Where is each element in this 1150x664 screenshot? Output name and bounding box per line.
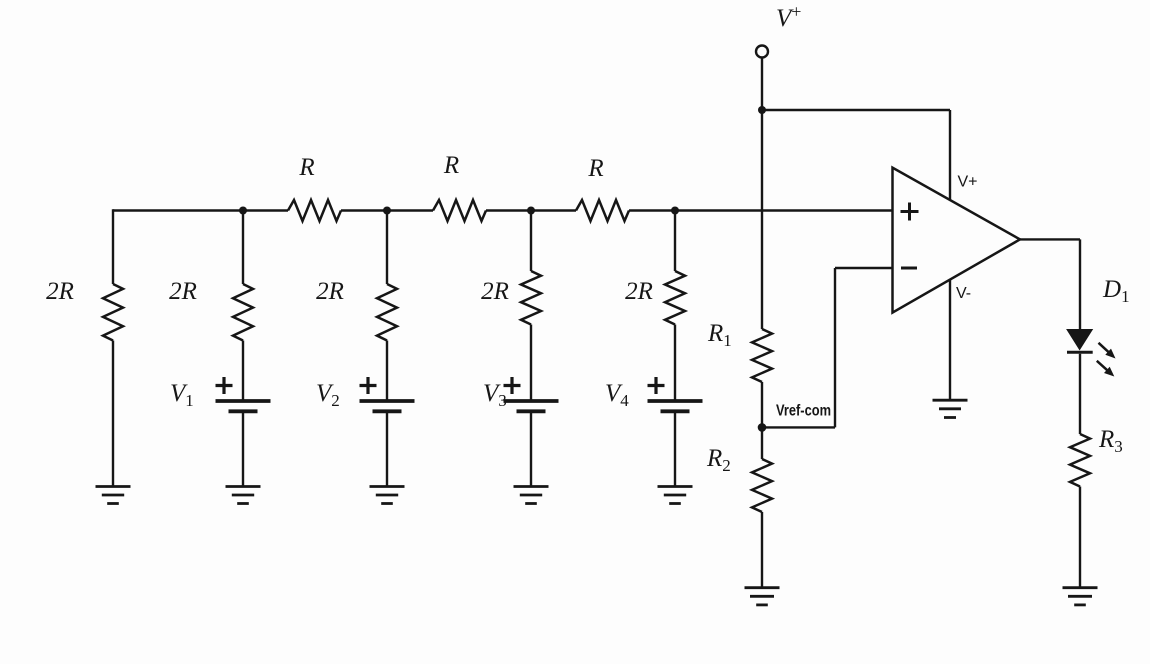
svg-text:2R: 2R (625, 278, 653, 305)
resistor 2R terminating (103, 284, 123, 341)
svg-text:V+: V+ (776, 2, 801, 33)
battery V2 (360, 399, 415, 403)
ground op-amp V- (933, 399, 968, 402)
ground column V1 (226, 485, 261, 488)
wire 2R to battery V3 (530, 325, 532, 402)
terminal V+ open circle (756, 46, 768, 58)
battery V4 (648, 399, 703, 403)
LED D1 light arrow 1 (1099, 343, 1110, 353)
resistor R (between node C and node D) (576, 200, 629, 221)
node C junction (527, 207, 535, 215)
wire left column top (112, 209, 114, 284)
svg-text:R1: R1 (707, 320, 732, 350)
node B junction (383, 207, 391, 215)
wire battery V3 to ground (530, 411, 532, 486)
LED D1 light arrow 2 (1097, 361, 1109, 371)
ground column V2 (370, 485, 405, 488)
node D junction (671, 207, 679, 215)
resistor R1 (752, 329, 772, 382)
ground left column (96, 485, 131, 488)
resistor R (between node B and node C) (433, 200, 486, 221)
wire node to 2R resistor column V2 (386, 211, 388, 285)
wire 2R to battery V4 (674, 325, 676, 402)
svg-text:V+: V+ (958, 173, 978, 190)
resistor 2R column V2 (377, 284, 397, 341)
wire op-amp V+ pin (949, 110, 951, 200)
svg-text:V2: V2 (316, 380, 340, 410)
wire main top bus (113, 209, 288, 211)
wire LED to R3 (1079, 354, 1081, 434)
svg-text:2R: 2R (316, 278, 344, 305)
resistor 2R column V1 (233, 284, 253, 341)
battery V4 plus polarity (648, 377, 665, 394)
op-amp U1 triangle (893, 168, 1021, 313)
battery V1 (216, 399, 271, 403)
wire R2 to ground (761, 512, 763, 588)
ground below R3 (1063, 586, 1098, 589)
wire battery V2 to ground (386, 411, 388, 486)
op-amp inverting - marker (901, 267, 917, 270)
wire op-amp V- pin to ground (949, 280, 951, 401)
resistor 2R column V4 (665, 271, 685, 325)
svg-text:2R: 2R (481, 278, 509, 305)
node V+ branch junction (758, 106, 766, 114)
wire V+ terminal down through R1 top (761, 58, 763, 330)
svg-text:2R: 2R (169, 278, 197, 305)
svg-text:Vref-com: Vref-com (776, 402, 831, 419)
wire node to 2R resistor column V4 (674, 211, 676, 272)
wire node to 2R resistor column V3 (530, 211, 532, 272)
wire battery V4 to ground (674, 411, 676, 486)
resistor R3 (1070, 434, 1090, 487)
svg-text:2R: 2R (46, 278, 74, 305)
wire Vref-com to inverting input (762, 426, 835, 428)
wire R3 to ground (1079, 487, 1081, 588)
svg-text:R: R (443, 152, 459, 179)
svg-text:R: R (587, 155, 603, 182)
wire 2R to battery V2 (386, 341, 388, 402)
LED D1 diode (1067, 330, 1092, 350)
node A junction (239, 207, 247, 215)
wire node to 2R resistor column V1 (242, 211, 244, 285)
wire battery V1 to ground (242, 411, 244, 486)
node Vref-com junction (758, 423, 767, 432)
svg-text:R3: R3 (1098, 426, 1123, 456)
wire R1 to Vref-com node (761, 382, 763, 459)
battery V3 plus polarity (504, 377, 521, 394)
resistor 2R column V3 (521, 271, 541, 325)
op-amp non-inverting + marker (901, 203, 919, 221)
ground below R2 (745, 586, 780, 589)
svg-text:V1: V1 (170, 380, 194, 410)
resistor R (between node A and node B) (288, 200, 341, 221)
svg-text:R2: R2 (706, 445, 731, 475)
battery V1 plus polarity (216, 377, 233, 394)
ground column V3 (514, 485, 549, 488)
wire V+ branch to op-amp supply (762, 109, 950, 111)
battery V2 plus polarity (360, 377, 377, 394)
ground column V4 (658, 485, 693, 488)
wire left column bottom (112, 341, 114, 487)
resistor R2 (752, 459, 772, 512)
battery V3 (504, 399, 559, 403)
svg-text:D1: D1 (1102, 276, 1130, 306)
svg-text:V3: V3 (483, 380, 507, 410)
svg-text:V4: V4 (605, 380, 629, 410)
wire 2R to battery V1 (242, 341, 244, 402)
svg-text:V-: V- (956, 285, 971, 302)
wire op-amp output (1020, 238, 1080, 240)
svg-text:R: R (298, 154, 314, 181)
